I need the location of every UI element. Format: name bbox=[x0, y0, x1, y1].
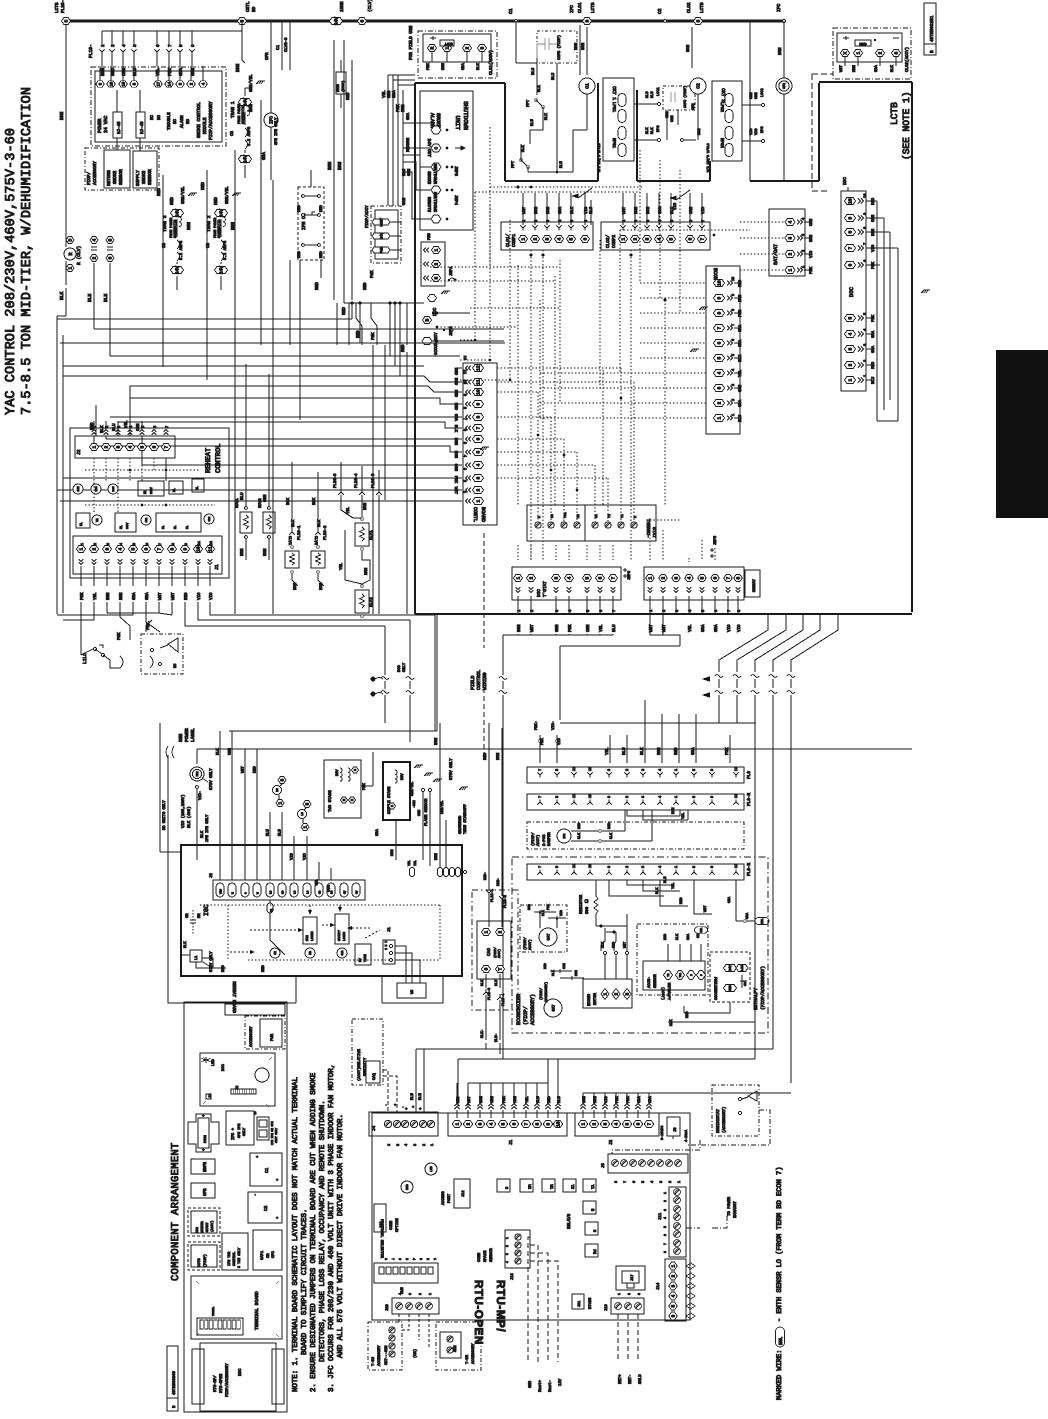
svg-text:(FIOP/ACCESSORY): (FIOP/ACCESSORY) bbox=[760, 966, 766, 1010]
svg-text:3: 3 bbox=[625, 992, 631, 995]
svg-text:LCTB: LCTB bbox=[445, 42, 453, 46]
svg-text:ACCU-: ACCU- bbox=[647, 977, 652, 988]
svg-text:ACCY): ACCY) bbox=[497, 949, 501, 958]
svg-text:NC: NC bbox=[173, 118, 178, 124]
svg-text:REMOTE: REMOTE bbox=[426, 197, 431, 213]
wire PL19 riser bus bbox=[102, 30, 242, 32]
economizer motor bbox=[583, 979, 632, 1008]
svg-text:PNK: PNK bbox=[453, 476, 458, 484]
svg-text:5: 5 bbox=[671, 1304, 677, 1307]
svg-text:TERMINAL BOARD: TERMINAL BOARD bbox=[254, 1291, 260, 1330]
contactor IFC bbox=[226, 1111, 254, 1145]
node C1 tap bbox=[515, 20, 518, 23]
svg-text:Rnet+: Rnet+ bbox=[538, 1379, 543, 1392]
return smoke sensor FIOP/ACCESSORY bbox=[85, 148, 159, 190]
svg-text:7: 7 bbox=[717, 326, 723, 329]
svg-text:GRA: GRA bbox=[744, 980, 747, 986]
svg-text:WHT: WHT bbox=[453, 487, 458, 495]
svg-text:5: 5 bbox=[405, 1258, 409, 1260]
svg-text:5: 5 bbox=[140, 445, 146, 448]
svg-text:BRN-: BRN- bbox=[496, 878, 501, 886]
svg-text:GRA: GRA bbox=[691, 747, 696, 755]
svg-text:VIO: VIO bbox=[197, 592, 202, 600]
svg-text:H: H bbox=[351, 799, 354, 801]
svg-text:4-20mA: 4-20mA bbox=[684, 1129, 689, 1142]
svg-text:ENTHALPY: ENTHALPY bbox=[666, 983, 671, 1001]
svg-text:HC UNITS ONLY: HC UNITS ONLY bbox=[162, 800, 167, 830]
svg-text:RJ-45: RJ-45 bbox=[140, 121, 145, 134]
terminal HPS2 tap bbox=[761, 139, 764, 142]
svg-text:TWO STAGE: TWO STAGE bbox=[328, 790, 333, 812]
svg-text:5 TON ONLY: 5 TON ONLY bbox=[237, 1248, 242, 1268]
svg-text:2: 2 bbox=[788, 252, 794, 255]
svg-text:VIO: VIO bbox=[303, 852, 308, 860]
svg-text:BLK: BLK bbox=[577, 832, 582, 839]
svg-text:BRN: BRN bbox=[364, 567, 369, 575]
svg-text:ALARM: ALARM bbox=[180, 115, 185, 128]
svg-text:1: 1 bbox=[648, 576, 654, 579]
svg-text:COMM: COMM bbox=[477, 1252, 482, 1262]
wires into IGC J2 bbox=[219, 731, 221, 880]
svg-text:4: 4 bbox=[671, 1294, 677, 1297]
svg-text:RED: RED bbox=[342, 307, 347, 315]
svg-text:500: 500 bbox=[585, 906, 590, 914]
svg-text:2: 2 bbox=[671, 1274, 677, 1277]
svg-text:3PH IFM ONLY: 3PH IFM ONLY bbox=[274, 117, 279, 145]
svg-text:7: 7 bbox=[848, 246, 854, 249]
svg-text:SMOKE CONTROL: SMOKE CONTROL bbox=[196, 102, 202, 138]
svg-text:HPS1: HPS1 bbox=[611, 138, 616, 149]
svg-text:6: 6 bbox=[632, 1181, 637, 1183]
svg-text:CONT: CONT bbox=[379, 217, 384, 226]
dotted wires from SAT/OAT bbox=[740, 221, 784, 223]
svg-text:TR: TR bbox=[667, 973, 670, 977]
svg-text:THRU STANDOFF: THRU STANDOFF bbox=[463, 804, 468, 834]
svg-text:FIELD: FIELD bbox=[470, 675, 476, 690]
svg-text:GRA: GRA bbox=[132, 592, 137, 600]
svg-text:4: 4 bbox=[412, 1258, 416, 1260]
svg-text:(CLV): (CLV) bbox=[367, 0, 373, 12]
plug PL6 bbox=[527, 767, 744, 783]
svg-text:BRN: BRN bbox=[249, 104, 254, 112]
svg-text:GRN/YEL: GRN/YEL bbox=[410, 782, 415, 796]
svg-text:RED: RED bbox=[387, 90, 392, 98]
svg-text:ECON: ECON bbox=[712, 268, 718, 280]
field control wiring label bbox=[483, 533, 485, 648]
svg-text:3: 3 bbox=[731, 384, 736, 386]
svg-text:GV: GV bbox=[344, 890, 347, 894]
svg-text:2: 2 bbox=[434, 262, 440, 265]
svg-text:2: 2 bbox=[533, 237, 539, 240]
svg-text:1RN: 1RN bbox=[77, 486, 80, 491]
svg-text:6: 6 bbox=[152, 445, 158, 448]
svg-text:GRN/YEL: GRN/YEL bbox=[440, 801, 444, 814]
break center bbox=[502, 635, 504, 675]
svg-text:J2: J2 bbox=[209, 873, 214, 878]
svg-text:RED: RED bbox=[201, 182, 206, 190]
svg-text:BRN: BRN bbox=[187, 222, 192, 230]
svg-text:BRN: BRN bbox=[59, 111, 65, 120]
svg-text:BLK: BLK bbox=[650, 127, 655, 134]
logic FAN LOGIC bbox=[303, 917, 317, 944]
svg-text:MGV: MGV bbox=[335, 769, 340, 776]
svg-text:VIO: VIO bbox=[559, 910, 563, 916]
svg-text:3: 3 bbox=[476, 476, 482, 479]
svg-text:FIOP/ACCESSORY: FIOP/ACCESSORY bbox=[208, 101, 214, 140]
wire RED TRAN3 drop bbox=[162, 180, 164, 207]
svg-text:BLK: BLK bbox=[59, 291, 65, 300]
svg-text:TEL: TEL bbox=[413, 860, 417, 866]
svg-text:CB: CB bbox=[230, 130, 235, 136]
relay CR coil bbox=[270, 948, 280, 958]
svg-text:1: 1 bbox=[674, 866, 679, 868]
svg-text:3: 3 bbox=[478, 1122, 484, 1125]
svg-text:J1: J1 bbox=[214, 564, 220, 570]
svg-text:ORN: ORN bbox=[417, 810, 422, 816]
svg-text:COMM: COMM bbox=[389, 1220, 394, 1230]
connector J2 reheat bbox=[75, 436, 175, 458]
svg-text:BRN: BRN bbox=[106, 592, 111, 600]
drawing number 48TM503251 B bbox=[924, 3, 936, 55]
svg-text:8: 8 bbox=[607, 769, 612, 771]
svg-text:24V: 24V bbox=[243, 98, 249, 107]
fuse COTS FIOP bbox=[336, 72, 346, 94]
svg-text:BRN: BRN bbox=[517, 624, 522, 632]
svg-text:8: 8 bbox=[736, 576, 742, 579]
svg-text:+: + bbox=[394, 1103, 396, 1108]
svg-text:BOARD TO SIMPLIFY CIRCUIT TRAC: BOARD TO SIMPLIFY CIRCUIT TRACES. bbox=[301, 1209, 309, 1355]
svg-text:(FIOP/: (FIOP/ bbox=[531, 832, 536, 846]
svg-text:3: 3 bbox=[305, 802, 311, 805]
svg-text:W1: W1 bbox=[96, 518, 99, 522]
svg-text:BRN: BRN bbox=[697, 129, 702, 135]
svg-text:OAT: OAT bbox=[546, 933, 551, 941]
svg-text:12V: 12V bbox=[558, 1378, 563, 1386]
svg-text:NC: NC bbox=[150, 114, 155, 120]
svg-text:4: 4 bbox=[462, 455, 467, 457]
svg-text:BLU: BLU bbox=[559, 160, 564, 168]
splice PNK bbox=[539, 735, 541, 763]
capacitor CAP1 OR OFC bbox=[253, 1230, 282, 1270]
svg-text:17: 17 bbox=[156, 81, 161, 86]
svg-text:12: 12 bbox=[734, 794, 739, 798]
svg-text:3: 3 bbox=[434, 276, 440, 279]
svg-text:2: 2 bbox=[668, 1181, 673, 1183]
svg-text:BLK: BLK bbox=[480, 979, 485, 986]
svg-text:2: 2 bbox=[625, 796, 630, 798]
svg-text:PNK: PNK bbox=[725, 747, 730, 755]
svg-text:4: 4 bbox=[398, 1293, 402, 1295]
svg-text:J4: J4 bbox=[372, 1125, 377, 1131]
svg-text:1: 1 bbox=[484, 930, 490, 933]
svg-text:3: 3 bbox=[106, 543, 111, 545]
wire BLU BLK joins bbox=[530, 107, 543, 144]
svg-text:BRN: BRN bbox=[441, 63, 446, 70]
svg-text:PNK: PNK bbox=[809, 266, 814, 274]
svg-text:7: 7 bbox=[476, 426, 482, 429]
node 0 CLV bbox=[358, 18, 367, 25]
svg-text:4: 4 bbox=[404, 1144, 409, 1146]
svg-text:ORN: ORN bbox=[754, 93, 759, 99]
svg-text:4: 4 bbox=[614, 1122, 620, 1125]
svg-text:6: 6 bbox=[476, 437, 482, 440]
svg-text:BLU: BLU bbox=[112, 423, 117, 431]
svg-text:3: 3 bbox=[663, 1209, 667, 1211]
svg-text:7: 7 bbox=[158, 543, 163, 545]
svg-text:CONTROL: CONTROL bbox=[232, 1252, 237, 1266]
svg-text:OR: OR bbox=[266, 1253, 271, 1258]
svg-text:10: 10 bbox=[717, 280, 723, 286]
svg-text:DOC: DOC bbox=[221, 1063, 226, 1071]
connector J20 bbox=[392, 1298, 439, 1314]
svg-text:3: 3 bbox=[462, 468, 467, 470]
svg-text:7.5-8.5 TON MID-TIER, W/DEHUMI: 7.5-8.5 TON MID-TIER, W/DEHUMIDIFICATION bbox=[20, 87, 35, 415]
svg-text:3: 3 bbox=[637, 1293, 641, 1295]
svg-text:NO: NO bbox=[186, 118, 191, 124]
svg-text:2: 2 bbox=[92, 547, 98, 550]
svg-text:RED: RED bbox=[319, 204, 324, 212]
svg-text:3: 3 bbox=[116, 445, 122, 448]
svg-text:2. ENSURE DESIGNATED JUMPERS: 2. ENSURE DESIGNATED JUMPERS ON TERMINAL… bbox=[310, 1072, 318, 1392]
node 3 IFC CLO1 LCTB bbox=[583, 18, 592, 25]
svg-text:1: 1 bbox=[506, 1237, 509, 1239]
wires below J1 bbox=[80, 602, 82, 645]
svg-text:ACCESSORY): ACCESSORY) bbox=[544, 982, 549, 1002]
pressure switches CKT 2 bbox=[712, 81, 742, 161]
svg-text:7: 7 bbox=[164, 445, 170, 448]
dotted IGC internals bbox=[200, 904, 440, 906]
plug CLO2(ACCY) field bbox=[833, 28, 911, 79]
svg-text:POWER: POWER bbox=[184, 728, 190, 742]
svg-text:PNB: PNB bbox=[427, 232, 432, 240]
svg-text:T-55: T-55 bbox=[465, 1354, 470, 1364]
svg-text:RED: RED bbox=[184, 592, 189, 600]
svg-text:VIO: VIO bbox=[557, 737, 562, 745]
svg-text:(ACCY): (ACCY) bbox=[210, 1220, 214, 1232]
svg-text:ACCY): ACCY) bbox=[536, 835, 541, 846]
svg-text:4: 4 bbox=[687, 576, 693, 579]
component arrangement outline bbox=[184, 1002, 287, 1412]
svg-text:YEL: YEL bbox=[681, 813, 686, 819]
svg-text:WIRING: WIRING bbox=[482, 673, 488, 690]
svg-text:10: 10 bbox=[462, 380, 467, 384]
svg-text:6: 6 bbox=[636, 1122, 642, 1125]
svg-text:3: 3 bbox=[585, 19, 591, 22]
board RTU-MP arrangement bbox=[192, 1349, 204, 1404]
svg-text:1: 1 bbox=[617, 1293, 621, 1295]
terminal HPS tap bbox=[657, 138, 660, 141]
svg-text:BLK: BLK bbox=[183, 941, 188, 948]
svg-text:1: 1 bbox=[516, 576, 522, 579]
svg-text:2: 2 bbox=[466, 1122, 472, 1125]
sensor plug SAT/OAT bbox=[769, 209, 805, 276]
svg-text:6: 6 bbox=[144, 547, 150, 550]
svg-text:YAC CONTROL 208/230V,460V,575V: YAC CONTROL 208/230V,460V,575V-3-60 bbox=[4, 128, 19, 415]
svg-text:5: 5 bbox=[240, 19, 246, 22]
svg-text:CCFS (FIOP): CCFS (FIOP) bbox=[557, 35, 562, 60]
svg-text:SAFETY: SAFETY bbox=[338, 930, 341, 941]
strip DDC T-STAT bbox=[512, 567, 621, 600]
svg-text:HL: HL bbox=[162, 525, 165, 529]
ground ECON bbox=[699, 307, 708, 310]
svg-text:8: 8 bbox=[717, 311, 723, 314]
svg-text:7: 7 bbox=[538, 866, 543, 868]
connector PNB 1-2-3 bbox=[421, 242, 445, 286]
limit switch LS1 bbox=[278, 777, 286, 784]
svg-text:1: 1 bbox=[92, 445, 98, 448]
svg-text:J12: J12 bbox=[461, 1191, 466, 1197]
svg-text:LOC2: LOC2 bbox=[760, 88, 765, 97]
svg-text:(ACCY)RELATIVE: (ACCY)RELATIVE bbox=[357, 1048, 362, 1081]
svg-text:2: 2 bbox=[418, 1293, 422, 1295]
svg-text:6: 6 bbox=[717, 341, 723, 344]
svg-text:3: 3 bbox=[506, 1253, 509, 1255]
reheat internal relays bbox=[73, 484, 83, 494]
svg-text:IFM TDR: IFM TDR bbox=[227, 1252, 232, 1266]
svg-text:0-10VDC: 0-10VDC bbox=[660, 1126, 665, 1140]
svg-text:8: 8 bbox=[663, 1251, 667, 1253]
svg-text:REHEAT: REHEAT bbox=[752, 578, 757, 592]
svg-text:2: 2 bbox=[878, 51, 884, 54]
svg-text:BRN: BRN bbox=[363, 502, 368, 510]
svg-text:LED: LED bbox=[211, 1058, 216, 1066]
svg-text:BLN: BLN bbox=[418, 1093, 423, 1100]
dotted mesh below compressor plugs bbox=[530, 250, 532, 560]
svg-text:MTR: MTR bbox=[563, 833, 566, 838]
node IFC end bbox=[783, 20, 786, 23]
svg-text:BLK: BLK bbox=[655, 887, 660, 894]
relay BR coil bbox=[305, 948, 315, 958]
wire DDC collectors bbox=[876, 201, 878, 421]
plug PL20-5 bbox=[376, 489, 382, 495]
svg-text:ACCESSORY): ACCESSORY) bbox=[530, 994, 536, 1025]
wire BLU BLK to J4 bbox=[415, 1049, 417, 1112]
svg-text:8: 8 bbox=[476, 415, 482, 418]
svg-text:CKT 1: CKT 1 bbox=[611, 86, 617, 100]
svg-text:12: 12 bbox=[476, 365, 482, 371]
svg-text:3: 3 bbox=[641, 796, 646, 798]
connector RJ-45 no.2 bbox=[136, 112, 145, 138]
svg-text:COMP1: COMP1 bbox=[512, 233, 517, 247]
svg-text:BRN: BRN bbox=[263, 548, 268, 556]
svg-text:8: 8 bbox=[731, 309, 736, 311]
svg-text:CONTROL: CONTROL bbox=[215, 444, 223, 473]
wires J20 to T56 bbox=[398, 1314, 400, 1322]
plug PL20-4 bbox=[359, 489, 365, 495]
svg-text:J19: J19 bbox=[604, 1303, 609, 1311]
svg-text:MOTOR: MOTOR bbox=[593, 992, 598, 1005]
wire RED TRAN2 drop bbox=[206, 170, 208, 207]
svg-text:CR: CR bbox=[185, 913, 190, 918]
svg-text:RED: RED bbox=[315, 282, 320, 290]
svg-text:RS: RS bbox=[276, 788, 279, 792]
svg-text:RLV2: RLV2 bbox=[369, 597, 374, 607]
svg-text:1: 1 bbox=[663, 1192, 667, 1194]
svg-text:MSB: MSB bbox=[406, 1184, 409, 1190]
svg-text:SAT: SAT bbox=[551, 1004, 556, 1012]
svg-text:UNIT: UNIT bbox=[454, 116, 461, 131]
svg-text:FAN: FAN bbox=[305, 935, 309, 941]
svg-text:J13: J13 bbox=[510, 1272, 515, 1280]
drawing number 48TM503309 B bbox=[167, 1346, 178, 1411]
connector RJ-45 no.1 bbox=[113, 112, 122, 138]
svg-text:BLU: BLU bbox=[278, 828, 283, 836]
transformer TRAN 2 bbox=[215, 210, 228, 217]
svg-text:3: 3 bbox=[419, 1258, 423, 1260]
compressor contactor C1 coil bbox=[579, 25, 581, 75]
svg-text:POWER: POWER bbox=[97, 118, 103, 133]
svg-text:BRN: BRN bbox=[581, 42, 586, 50]
svg-text:4: 4 bbox=[567, 576, 573, 579]
svg-text:NET+: NET+ bbox=[618, 1374, 623, 1384]
svg-text:RED: RED bbox=[685, 1012, 690, 1018]
svg-text:8: 8 bbox=[607, 866, 612, 868]
svg-text:4: 4 bbox=[128, 445, 134, 448]
transformer HV TRAM bbox=[355, 944, 371, 965]
svg-text:SEE: SEE bbox=[178, 733, 184, 742]
svg-text:YEL: YEL bbox=[93, 592, 98, 600]
wire HC UNITS ONLY rail bbox=[167, 755, 169, 976]
sensor SAT bbox=[544, 999, 562, 1017]
svg-text:7: 7 bbox=[538, 769, 543, 771]
svg-text:575V ONLY: 575V ONLY bbox=[449, 758, 454, 780]
svg-text:PNK: PNK bbox=[540, 737, 545, 745]
svg-text:YEL: YEL bbox=[346, 506, 351, 514]
wires bundle to economizer bbox=[560, 722, 756, 724]
svg-text:ENTHALPY: ENTHALPY bbox=[753, 988, 759, 1010]
svg-text:LOGIC: LOGIC bbox=[310, 931, 314, 941]
svg-text:5: 5 bbox=[462, 442, 467, 444]
svg-text:BRN: BRN bbox=[319, 582, 324, 590]
svg-text:NET-: NET- bbox=[628, 1374, 633, 1384]
svg-text:RED: RED bbox=[401, 344, 406, 352]
svg-text:DDC: DDC bbox=[238, 1368, 243, 1376]
svg-text:14: 14 bbox=[167, 81, 172, 86]
svg-text:GVR: GVR bbox=[341, 950, 344, 955]
svg-text:ORN: ORN bbox=[586, 624, 591, 632]
svg-text:LS: LS bbox=[301, 812, 304, 816]
svg-text:PWK: PWK bbox=[370, 270, 375, 278]
compressor plug CLO2/COMP2 bbox=[601, 222, 710, 250]
switch FPT no.2 bbox=[520, 159, 523, 162]
svg-text:1PH IPM ON 3PH: 1PH IPM ON 3PH bbox=[271, 1121, 274, 1145]
svg-text:1: 1 bbox=[801, 266, 806, 268]
board CONTL BOARD bbox=[463, 363, 497, 525]
terminal board arrangement bbox=[191, 1276, 282, 1339]
svg-text:PWR: PWR bbox=[270, 1033, 275, 1041]
junction dots DDC only bbox=[371, 677, 376, 682]
svg-text:1: 1 bbox=[79, 547, 85, 550]
switch 33CSENTHSW bbox=[710, 952, 750, 1002]
svg-text:24V: 24V bbox=[175, 266, 181, 275]
svg-text:BD: BD bbox=[252, 6, 257, 12]
svg-text:PL6-R: PL6-R bbox=[747, 862, 752, 876]
svg-text:GRA: GRA bbox=[701, 624, 706, 632]
svg-text:PL6-R: PL6-R bbox=[747, 792, 752, 806]
svg-text:Ω: Ω bbox=[584, 899, 590, 903]
svg-text:WHT: WHT bbox=[839, 64, 844, 72]
svg-text:BLK: BLK bbox=[312, 497, 317, 505]
svg-text:BLK: BLK bbox=[453, 425, 458, 433]
svg-text:YEL: YEL bbox=[407, 860, 411, 866]
svg-text:VIO-: VIO- bbox=[551, 721, 556, 730]
svg-text:3: 3 bbox=[671, 1284, 677, 1287]
node C2 tap bbox=[664, 20, 667, 23]
wire long horizontals upper bbox=[57, 318, 352, 320]
svg-text:RLV1: RLV1 bbox=[369, 530, 374, 540]
svg-text:1: 1 bbox=[848, 378, 854, 381]
humidifier HU bbox=[141, 634, 183, 674]
